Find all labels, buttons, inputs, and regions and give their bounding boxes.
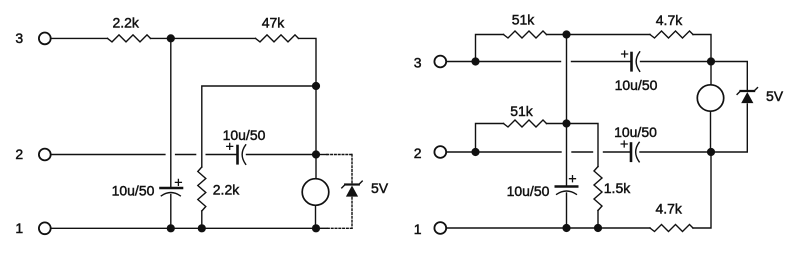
svg-text:4.7k: 4.7k — [655, 200, 682, 216]
wire terminal2 with crossover gaps to cap plate — [51, 154, 236, 156]
svg-text:3: 3 — [414, 54, 422, 70]
svg-text:2: 2 — [15, 146, 23, 162]
zener diode 5V (right) — [737, 88, 757, 104]
wire node E to zener branch — [711, 62, 747, 91]
junction bottom rail at cap — [167, 224, 175, 232]
wire 4.7k to corner down to node E — [693, 35, 711, 62]
junction node G — [707, 148, 715, 156]
junction bottom rail at 1.5k — [594, 224, 602, 232]
wire indicator to node G — [710, 111, 712, 152]
wire node H up and to 51k — [476, 35, 504, 62]
resistor 51k (top row) — [504, 31, 547, 38]
junction bottom rail at 2.2k — [198, 224, 206, 232]
capacitor 10u/50 (right vertical electrolytic) — [556, 176, 577, 195]
svg-text:10u/50: 10u/50 — [615, 77, 658, 93]
wire node D to 4.7k — [567, 34, 651, 36]
wire cap to node E — [641, 61, 712, 63]
indicator lamp (right circle) — [697, 85, 723, 111]
svg-text:10u/50: 10u/50 — [223, 127, 266, 143]
resistor 2.2k (left vertical) — [198, 167, 206, 211]
junction node F — [562, 119, 570, 127]
wire row1 with crossover gap to series cap — [476, 61, 631, 63]
svg-text:51k: 51k — [512, 12, 536, 28]
dotted wire down to zener — [351, 155, 353, 184]
junction node E — [707, 57, 715, 65]
resistor 4.7k (bottom) — [650, 225, 693, 232]
wire 51k row2 to node F — [547, 123, 567, 125]
wire 4.7k up to node G — [693, 152, 711, 228]
svg-text:1.5k: 1.5k — [604, 180, 631, 196]
wire series cap to node C — [247, 154, 317, 156]
wire vertical 2.2k to bottom rail — [201, 211, 203, 228]
junction bottom rail at electrolytic — [562, 224, 570, 232]
wire zener to node G — [711, 104, 747, 152]
terminal 2 (right) — [434, 146, 446, 158]
svg-text:51k: 51k — [510, 103, 534, 119]
junction node H — [471, 57, 479, 65]
terminal 3 (left) — [39, 33, 51, 45]
wire node I up and to 51k row2 — [476, 124, 504, 153]
wire row2 with crossover gaps to series cap — [476, 151, 630, 153]
junction node D — [562, 30, 570, 38]
wire node B to left branch — [202, 86, 316, 167]
svg-text:5V: 5V — [371, 180, 389, 196]
wire node C to indicator — [315, 155, 317, 179]
junction node C — [312, 150, 320, 158]
resistor 51k (row2) — [504, 120, 547, 127]
wire bottom rail (left) — [51, 227, 316, 229]
wire bottom rail (right) to 4.7k — [447, 227, 650, 229]
wire node F right and down to 1.5k — [567, 124, 599, 167]
wire terminal3 to R 2.2k — [51, 37, 107, 39]
terminal 2 (left) — [39, 149, 51, 161]
capacitor 10u/50 (left series, polarized) — [227, 143, 246, 164]
resistor 4.7k (top) — [650, 31, 693, 38]
capacitor 10u/50 (right row1 series, polarized) — [622, 51, 640, 71]
zener diode 5V (left, dashed branch) — [342, 181, 362, 197]
svg-text:10u/50: 10u/50 — [112, 183, 155, 199]
wire node A down to electrolytic cap — [170, 38, 172, 186]
wire 1.5k to bottom rail — [597, 211, 599, 229]
svg-text:4.7k: 4.7k — [656, 12, 683, 28]
junction node A — [167, 34, 175, 42]
wire cap to node G — [640, 151, 711, 153]
wire node E to indicator — [710, 62, 712, 85]
junction node B — [312, 82, 320, 90]
wire R47k to corner and down to node B and node C — [299, 38, 317, 154]
resistor 47k — [256, 35, 299, 42]
wire electrolytic cap to bottom rail — [170, 195, 172, 229]
wire indicator to bottom rail — [315, 205, 317, 228]
svg-text:1: 1 — [15, 220, 23, 236]
svg-text:10u/50: 10u/50 — [614, 124, 657, 140]
indicator lamp (left circle) — [302, 179, 329, 206]
svg-text:3: 3 — [15, 30, 23, 46]
wire R2.2k to R47k through node A — [151, 37, 256, 39]
svg-text:5V: 5V — [766, 88, 784, 104]
terminal 3 (right) — [434, 56, 446, 68]
wire electrolytic to bottom rail — [566, 193, 568, 228]
capacitor 10u/50 (right row2 series, polarized) — [621, 141, 639, 162]
resistor 2.2k (left horizontal) — [108, 35, 151, 42]
svg-text:2.2k: 2.2k — [112, 15, 139, 31]
wire node F down to electrolytic cap — [566, 124, 568, 186]
wire terminal2 to node I — [447, 151, 476, 153]
svg-text:2.2k: 2.2k — [213, 182, 240, 198]
junction node I — [471, 148, 479, 156]
capacitor 10u/50 (left vertical electrolytic) — [161, 179, 183, 195]
dotted wire zener bottom to rail — [320, 227, 327, 229]
svg-text:1: 1 — [414, 221, 422, 237]
svg-text:47k: 47k — [262, 15, 286, 31]
wire 51k to node D — [547, 34, 567, 36]
wire node D down to node F — [566, 35, 568, 124]
junction bottom rail at indicator — [312, 224, 320, 232]
resistor 1.5k (vertical) — [594, 167, 602, 211]
dotted wire node C to zener (top) — [320, 154, 327, 156]
terminal 1 (right) — [434, 222, 446, 234]
terminal 1 (left) — [39, 222, 51, 234]
svg-text:10u/50: 10u/50 — [507, 183, 550, 199]
svg-text:2: 2 — [414, 145, 422, 161]
dotted wire zener to bottom — [351, 198, 353, 229]
wire terminal3 to node H — [447, 61, 476, 63]
